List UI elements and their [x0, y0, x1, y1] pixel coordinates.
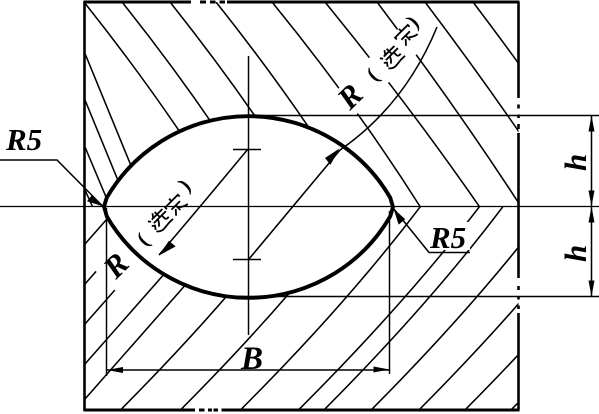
- die block border: left: [83, 2, 86, 411]
- label h lower (rotated): [558, 245, 593, 262]
- h arrows: [589, 116, 595, 132]
- label h upper (rotated): [558, 154, 593, 171]
- radius dimension line upper (to upper arc): [249, 27, 437, 259]
- vertical centerline: [248, 56, 250, 335]
- leader R5 left: [0, 160, 102, 206]
- lens cavity outline: [104, 116, 393, 298]
- svg-text:R5: R5: [5, 122, 42, 157]
- label R (xuanding) lower: [93, 174, 205, 286]
- h dimension line upper: [591, 116, 593, 207]
- hatching lower die: [85, 207, 599, 410]
- leader R5 right: [394, 209, 471, 253]
- svg-text:R5: R5: [429, 220, 466, 255]
- die block border: right (with dash-dot breaks at centerlines): [517, 2, 520, 410]
- B arrow left: [107, 367, 123, 373]
- die block border: bottom (with dash-dot break): [84, 408, 520, 411]
- white halo under upper radius label: [327, 13, 435, 121]
- B arrow right: [374, 367, 390, 373]
- die block border: top (with dash-dot break): [84, 0, 520, 3]
- white halo under right R5 label: [428, 222, 470, 250]
- h dimension line lower: [591, 207, 593, 297]
- arrowhead on upper arc: [325, 149, 340, 165]
- upper arc centerline: [244, 115, 599, 117]
- center mark upper (center of lower arc): [233, 149, 261, 151]
- hanzi xuan: [377, 42, 405, 70]
- lower arc centerline: [240, 296, 599, 298]
- label R (xuanding) upper: [327, 11, 433, 117]
- arrowhead R5 right: [394, 209, 406, 225]
- hatching upper die: [84, 2, 599, 210]
- arrowhead R5 left: [87, 195, 104, 207]
- white halo under lower radius label: [93, 178, 205, 290]
- radius dimension line lower (to lower arc): [159, 149, 248, 255]
- B extension line left: [106, 208, 108, 376]
- svg-text:B: B: [240, 341, 263, 377]
- B extension line right: [389, 211, 391, 374]
- B dimension line: [107, 369, 389, 371]
- center mark lower (center of upper arc): [233, 259, 261, 261]
- svg-text:h: h: [558, 245, 593, 262]
- parting line through lens tips: [0, 206, 599, 208]
- svg-text:h: h: [558, 154, 593, 171]
- arrowhead on lower arc: [159, 241, 176, 256]
